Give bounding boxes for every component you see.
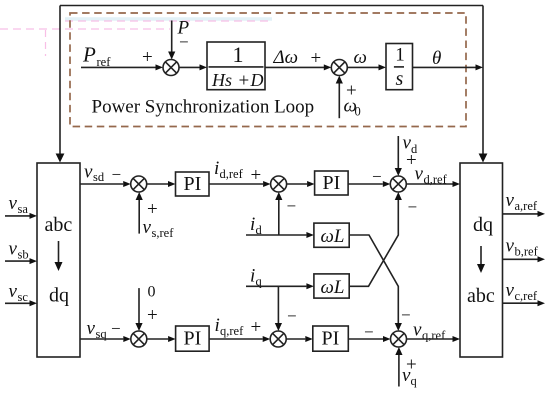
block dq to abc (right) bbox=[460, 163, 503, 357]
blue artifact tint band bbox=[65, 17, 272, 21]
wire wL1 out and cross down bbox=[349, 235, 398, 324]
svg-text:q: q bbox=[411, 374, 418, 388]
wire Pref to S1 bbox=[81, 66, 156, 68]
svg-text:v: v bbox=[506, 236, 515, 257]
svg-text:ωL: ωL bbox=[321, 226, 345, 247]
svg-text:b,ref: b,ref bbox=[515, 245, 539, 259]
svg-text:sc: sc bbox=[18, 290, 29, 304]
pink artifact dash line left bbox=[0, 28, 170, 30]
svg-text:0: 0 bbox=[355, 105, 361, 119]
wire vd into S5 bbox=[397, 136, 399, 169]
svg-text:a,ref: a,ref bbox=[515, 199, 538, 213]
wire S4 to PI2 bbox=[287, 183, 308, 185]
svg-text:1: 1 bbox=[395, 44, 405, 65]
wire P into S1 bbox=[171, 21, 173, 53]
svg-text:+: + bbox=[346, 81, 357, 102]
wire theta top distribution bbox=[60, 5, 483, 7]
wire id to wL1 bbox=[246, 234, 306, 236]
block PI3 bbox=[176, 326, 210, 351]
block PI1 bbox=[176, 172, 210, 196]
wire S5 to dq block bbox=[406, 183, 452, 185]
pink artifact dash line upper bbox=[65, 20, 270, 22]
summing junction S1 bbox=[163, 60, 179, 76]
svg-text:+: + bbox=[147, 305, 158, 326]
svg-text:v: v bbox=[506, 280, 515, 301]
wire vsa input bbox=[5, 215, 30, 217]
wire zero into S7 bbox=[138, 288, 140, 323]
wire id junction up into S4 bbox=[278, 200, 280, 236]
summing junction S5 bbox=[390, 176, 406, 192]
block PI4 bbox=[313, 326, 349, 351]
wire theta left vertical bbox=[59, 6, 61, 155]
summing junction S3 bbox=[131, 176, 147, 192]
summing junction S6 bbox=[391, 331, 407, 347]
wire vs,ref into S3 bbox=[138, 200, 140, 234]
svg-text:i: i bbox=[214, 158, 219, 179]
svg-text:dq: dq bbox=[473, 214, 493, 236]
svg-text:D: D bbox=[250, 70, 264, 90]
svg-text:sd: sd bbox=[93, 170, 105, 184]
wire vbref output bbox=[503, 258, 538, 260]
wire varef output bbox=[503, 213, 538, 215]
wire theta output bbox=[413, 66, 476, 68]
wire omega0 into S2 bbox=[338, 83, 340, 118]
svg-text:d,ref: d,ref bbox=[220, 167, 244, 181]
block wL2 bbox=[314, 274, 349, 298]
summing junction S8 bbox=[270, 331, 286, 347]
wire vsc input bbox=[5, 302, 30, 304]
svg-text:v: v bbox=[413, 320, 422, 341]
svg-text:sb: sb bbox=[18, 248, 29, 262]
wire vcref output bbox=[503, 302, 538, 304]
svg-text:c,ref: c,ref bbox=[515, 289, 538, 303]
svg-text:+: + bbox=[142, 47, 153, 68]
svg-text:+: + bbox=[147, 199, 158, 220]
svg-text:abc: abc bbox=[45, 214, 73, 236]
svg-text:v: v bbox=[415, 164, 424, 185]
wire S1 to block 1/(Hs+D) bbox=[179, 66, 200, 68]
block U2 1/s bbox=[386, 44, 413, 90]
svg-text:abc: abc bbox=[467, 285, 495, 307]
wire PI1 to S4 bbox=[209, 183, 263, 185]
svg-text:−: − bbox=[111, 319, 121, 338]
wire PI4 to S6 bbox=[348, 338, 383, 340]
svg-text:ω: ω bbox=[354, 47, 367, 68]
svg-text:−: − bbox=[287, 307, 297, 326]
summing junction S7 bbox=[131, 331, 147, 347]
wire S8 to PI4 bbox=[286, 338, 305, 340]
wire vsd to S3 bbox=[80, 183, 123, 185]
svg-text:−: − bbox=[179, 33, 189, 52]
svg-text:ωL: ωL bbox=[321, 277, 345, 298]
svg-text:+: + bbox=[251, 317, 262, 338]
svg-text:1: 1 bbox=[233, 42, 244, 67]
svg-text:i: i bbox=[250, 214, 255, 235]
wire vsb input bbox=[5, 260, 30, 262]
block PI2 bbox=[315, 171, 349, 195]
wire S7 to PI3 bbox=[147, 338, 168, 340]
summing junction S2 bbox=[331, 60, 347, 76]
svg-text:PI: PI bbox=[322, 328, 340, 350]
svg-text:−: − bbox=[408, 198, 418, 217]
svg-text:v: v bbox=[84, 161, 93, 182]
wire wL2 out and cross up bbox=[349, 200, 398, 287]
svg-text:−: − bbox=[401, 306, 411, 325]
wire iq junction down to S8 bbox=[277, 286, 279, 323]
wire PI3 to S8 bbox=[209, 338, 263, 340]
svg-text:i: i bbox=[215, 315, 220, 336]
svg-text:dq: dq bbox=[49, 285, 69, 307]
svg-text:v: v bbox=[506, 190, 515, 211]
svg-text:−: − bbox=[112, 165, 122, 184]
svg-text:i: i bbox=[250, 266, 255, 287]
wire S3 to PI1 bbox=[147, 183, 168, 185]
svg-text:−: − bbox=[287, 197, 297, 216]
wire iq to wL2 bbox=[246, 285, 306, 287]
svg-text:+: + bbox=[311, 48, 322, 69]
svg-text:s: s bbox=[396, 68, 404, 90]
svg-text:+: + bbox=[251, 165, 262, 186]
PSL dashed box bbox=[70, 13, 466, 127]
wire S2 to block 1/s bbox=[347, 66, 378, 68]
block wL1 bbox=[314, 223, 349, 247]
wire block1 to S2 bbox=[265, 66, 324, 68]
svg-text:sa: sa bbox=[18, 202, 29, 216]
svg-text:+: + bbox=[406, 355, 417, 376]
block U1 1/(Hs+D) bbox=[207, 42, 265, 90]
svg-text:PI: PI bbox=[323, 172, 341, 194]
svg-text:−: − bbox=[372, 167, 382, 186]
svg-text:q,ref: q,ref bbox=[422, 329, 446, 343]
wire theta right vertical bbox=[482, 6, 484, 155]
svg-text:q,ref: q,ref bbox=[220, 324, 244, 338]
svg-text:v: v bbox=[9, 239, 18, 260]
wire PI2 to S5 bbox=[348, 183, 383, 185]
wire vsq to S7 bbox=[80, 338, 123, 340]
summing junction S4 bbox=[271, 176, 287, 192]
svg-text:v: v bbox=[9, 193, 18, 214]
svg-text:v: v bbox=[87, 318, 96, 339]
svg-text:PI: PI bbox=[184, 328, 202, 350]
svg-text:+: + bbox=[239, 71, 250, 92]
svg-text:Δω: Δω bbox=[273, 47, 299, 68]
svg-text:v: v bbox=[9, 281, 18, 302]
svg-text:0: 0 bbox=[148, 284, 156, 301]
svg-text:v: v bbox=[143, 217, 152, 238]
svg-text:P: P bbox=[82, 43, 96, 67]
wire vq into S6 bbox=[398, 355, 400, 387]
svg-text:Hs: Hs bbox=[211, 70, 232, 90]
svg-text:Power Synchronization Loop: Power Synchronization Loop bbox=[92, 97, 315, 118]
svg-text:PI: PI bbox=[184, 173, 202, 195]
svg-text:s,ref: s,ref bbox=[152, 226, 175, 240]
svg-text:θ: θ bbox=[432, 48, 441, 69]
pink artifact dash vertical bbox=[45, 30, 47, 56]
wire S6 to dq block bbox=[407, 338, 453, 340]
block abc to dq (left) bbox=[37, 163, 80, 357]
